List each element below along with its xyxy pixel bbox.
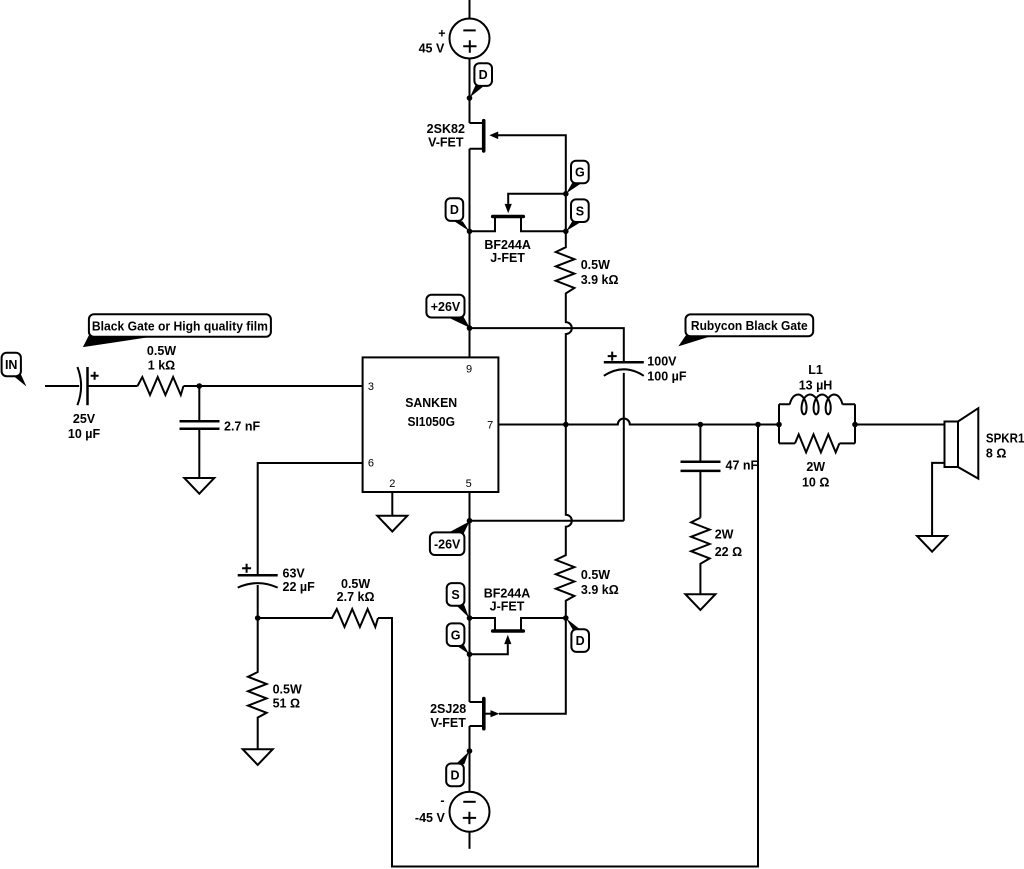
svg-text:22 µF: 22 µF: [283, 580, 316, 594]
wire: resistor to pin 3: [184, 385, 363, 387]
svg-text:-26V: -26V: [434, 537, 461, 551]
svg-text:G: G: [575, 166, 585, 180]
svg-text:+26V: +26V: [431, 300, 461, 314]
resistor 1k: [138, 377, 184, 395]
capacitor 22uF (polarized): [238, 564, 278, 618]
wire: 100uF bottom lead: [623, 373, 625, 521]
svg-text:63V: 63V: [283, 566, 306, 580]
svg-text:-: -: [440, 794, 444, 808]
value label 2W 10 ohm: [802, 460, 829, 489]
svg-text:V-FET: V-FET: [430, 716, 466, 730]
junction: node S (BF244A bottom): [467, 615, 473, 621]
wire: pin 5 node to 100uF bottom: [470, 520, 624, 522]
wire: source to 2SK82 drain: [469, 59, 471, 123]
callout D (2SJ28 drain): [446, 751, 469, 786]
speaker SPKR1: [932, 408, 978, 536]
capacitor 100uF (polarized): [604, 352, 644, 376]
ground (22 ohm): [685, 594, 715, 610]
value label 25V 10uF: [68, 412, 101, 441]
svg-text:9: 9: [466, 364, 472, 376]
junction: +26V node: [467, 325, 473, 331]
label 2SJ28 V-FET: [430, 702, 466, 730]
value label 0.5W 3.9k (top): [581, 258, 619, 287]
svg-text:J-FET: J-FET: [490, 600, 525, 614]
svg-text:2: 2: [389, 478, 395, 490]
junction: node S (BF244A top): [563, 229, 569, 235]
inductor L1 13uH: [790, 395, 843, 415]
svg-text:47 nF: 47 nF: [726, 459, 759, 473]
svg-text:25V: 25V: [73, 412, 96, 426]
label BF244A J-FET (top): [484, 238, 531, 265]
wire: pin 2 lead: [391, 492, 393, 516]
wire: L1 frame: [779, 404, 855, 443]
svg-text:SANKEN: SANKEN: [405, 395, 457, 410]
wire: +26V node to 100uF cap: [470, 328, 624, 362]
wire: pin 5 lead: [469, 492, 471, 521]
wire: output pin 7 with hop over cap lead: [498, 419, 779, 425]
junction: node G (BF244A bottom): [467, 652, 473, 658]
svg-text:10 Ω: 10 Ω: [802, 475, 829, 489]
junction: 47nF node: [698, 422, 704, 428]
callout +26V: [426, 295, 469, 328]
svg-text:BF244A: BF244A: [484, 586, 531, 600]
svg-text:10 µF: 10 µF: [68, 427, 101, 441]
svg-text:13 µH: 13 µH: [799, 379, 833, 393]
callout D (BF244A top): [446, 198, 470, 231]
svg-text:5: 5: [466, 478, 472, 490]
label L1 13uH: [799, 363, 833, 393]
svg-text:V-FET: V-FET: [428, 135, 464, 149]
callout Rubycon Black Gate: [678, 314, 813, 346]
svg-text:-45 V: -45 V: [415, 811, 446, 825]
resistor 3.9k top + gate chain with hops: [556, 231, 575, 618]
svg-text:0.5W: 0.5W: [581, 568, 610, 582]
wire: 2SJ28 gate to node D: [499, 618, 566, 714]
svg-text:8 Ω: 8 Ω: [986, 446, 1006, 460]
svg-text:100V: 100V: [647, 355, 677, 369]
value label 63V 22uF: [283, 566, 316, 594]
svg-text:D: D: [450, 203, 459, 217]
value label 0.5W 3.9k (bottom): [581, 568, 619, 597]
junction: input node: [197, 383, 203, 389]
junction: -26V node: [467, 518, 473, 524]
svg-text:51 Ω: 51 Ω: [273, 697, 300, 711]
label 2SK82 V-FET: [427, 122, 465, 150]
wire: input lead: [45, 385, 79, 387]
voltage source +45V: [450, 19, 490, 59]
svg-text:G: G: [451, 628, 461, 642]
junction: node G: [563, 191, 569, 197]
value label 0.5W 1k: [147, 344, 176, 373]
wire: rail pin5 to 2SJ28: [469, 521, 471, 702]
callout G (top): [566, 161, 589, 194]
value label 0.5W 2.7k: [337, 577, 375, 604]
svg-text:3.9 kΩ: 3.9 kΩ: [581, 583, 619, 597]
junction: feedback low node: [255, 615, 261, 621]
value label 45 V with + polarity: [419, 27, 446, 56]
junction: feedback node: [755, 422, 761, 428]
junction: pin7 / gate chain: [563, 422, 569, 428]
resistor 22 ohm: [691, 518, 710, 595]
wire: 2SK82 gate to node G: [498, 135, 566, 231]
wire: pin 6 to 22uF cap: [258, 463, 363, 575]
junction: L1 right node: [852, 422, 858, 428]
svg-text:0.5W: 0.5W: [273, 683, 302, 697]
wire: pin 9 lead: [469, 328, 471, 357]
svg-text:S: S: [451, 588, 459, 602]
transistor BF244A J-FET (bottom): [470, 618, 566, 654]
resistor 2.7k: [258, 609, 378, 627]
ground (input filter): [184, 478, 214, 494]
value label 0.5W 51 ohm: [273, 683, 302, 711]
callout D (2SK82 drain): [470, 63, 492, 97]
wire: L1 right node to speaker: [855, 424, 945, 426]
svg-text:3.9 kΩ: 3.9 kΩ: [581, 273, 619, 287]
svg-text:2.7 kΩ: 2.7 kΩ: [337, 590, 375, 604]
junction: 2SJ28 drain node: [467, 748, 473, 754]
svg-text:Black Gate or High quality fil: Black Gate or High quality film: [92, 318, 268, 333]
svg-text:SPKR1: SPKR1: [986, 432, 1024, 446]
svg-text:7: 7: [487, 420, 493, 432]
ground (51 ohm): [243, 749, 273, 765]
ground (speaker): [917, 536, 947, 552]
svg-text:0.5W: 0.5W: [341, 577, 370, 591]
svg-text:22 Ω: 22 Ω: [715, 545, 742, 559]
svg-text:2SJ28: 2SJ28: [430, 702, 466, 716]
value label -45 V with - polarity: [415, 794, 446, 825]
value label 100V 100uF: [647, 355, 687, 384]
svg-text:100 µF: 100 µF: [647, 370, 687, 384]
transistor 2SK82 V-FET: [470, 121, 499, 151]
svg-text:IN: IN: [5, 358, 18, 372]
svg-text:D: D: [450, 769, 459, 783]
svg-text:2W: 2W: [715, 528, 734, 542]
callout G (bottom): [447, 623, 469, 654]
wire: 2SK82 source rail: [469, 149, 471, 328]
svg-text:3: 3: [368, 381, 374, 393]
svg-text:+: +: [438, 27, 445, 41]
value label 2W 22 ohm: [715, 528, 742, 559]
junction: node D (BF244A bottom): [563, 615, 569, 621]
capacitor 2.7nF: [180, 386, 220, 478]
resistor 10 ohm (parallel with L1): [795, 434, 839, 452]
wire: 2SJ28 to -45V source: [469, 726, 471, 791]
svg-text:D: D: [576, 634, 585, 648]
capacitor 10uF input (polarized): [77, 367, 98, 405]
ground (pin 2): [377, 516, 407, 532]
wire: cap to resistor: [88, 385, 138, 387]
svg-text:J-FET: J-FET: [490, 251, 525, 265]
svg-text:0.5W: 0.5W: [581, 258, 610, 272]
svg-text:Rubycon Black Gate: Rubycon Black Gate: [691, 318, 808, 333]
svg-text:2SK82: 2SK82: [427, 122, 465, 136]
svg-text:D: D: [479, 68, 488, 82]
callout IN: [2, 353, 27, 387]
svg-text:1 kΩ: 1 kΩ: [148, 359, 175, 373]
junction: node D (BF244A top): [467, 229, 473, 235]
callout S (BF244A top): [566, 199, 589, 231]
callout -26V: [430, 521, 470, 555]
svg-text:S: S: [576, 204, 584, 218]
svg-text:L1: L1: [808, 363, 823, 377]
callout D (bottom right): [566, 618, 589, 652]
svg-text:6: 6: [368, 458, 374, 470]
svg-text:2W: 2W: [806, 460, 825, 474]
svg-text:2.7 nF: 2.7 nF: [224, 419, 260, 433]
IC U1 SANKEN SI1050G: [363, 357, 499, 492]
transistor 2SJ28 V-FET: [470, 699, 500, 729]
callout Black Gate or High quality film: [83, 314, 271, 347]
svg-text:45 V: 45 V: [419, 41, 445, 55]
svg-text:0.5W: 0.5W: [147, 344, 176, 358]
capacitor 47nF: [681, 425, 721, 518]
label BF244A J-FET (bottom): [484, 586, 531, 613]
transistor BF244A J-FET (top): [470, 194, 566, 232]
wire: -45V source bottom stub: [469, 832, 471, 849]
wire: feedback path bottom: [378, 425, 758, 867]
label SPKR1 8 ohm: [986, 432, 1024, 461]
voltage source -45V: [450, 792, 490, 832]
junction: 2SK82 drain node: [467, 95, 473, 101]
wire: +45V supply top lead: [469, 0, 471, 18]
junction: L1 left node: [776, 422, 782, 428]
label SANKEN SI1050G: [405, 395, 457, 429]
callout S (bottom): [447, 583, 469, 618]
resistor 51 ohm: [248, 618, 267, 749]
svg-text:SI1050G: SI1050G: [407, 414, 455, 429]
